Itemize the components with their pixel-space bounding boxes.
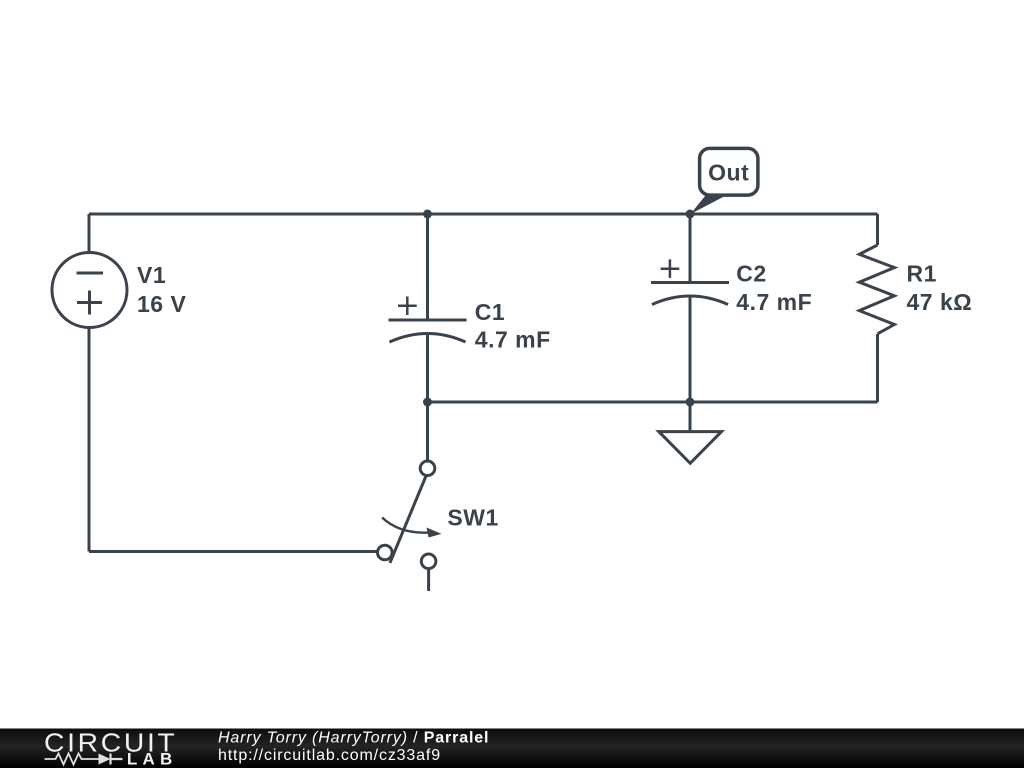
svg-text:C1: C1: [475, 299, 505, 325]
wire: top rail from V1 to R1: [89, 213, 878, 216]
node dot C (C2 bottom): [686, 398, 695, 407]
wire: C1 top lead: [426, 214, 429, 320]
footer bar: [0, 729, 1024, 768]
wire: R1 top lead: [876, 214, 879, 245]
capacitor C2: [651, 259, 729, 304]
svg-text:V1: V1: [137, 262, 166, 288]
voltage source V1: [52, 253, 127, 328]
CircuitLab logo wordmark: [44, 728, 178, 768]
switch SW1: [378, 461, 442, 591]
svg-text:4.7 mF: 4.7 mF: [475, 327, 551, 353]
svg-text:R1: R1: [907, 261, 937, 287]
capacitor C1: [389, 297, 467, 343]
svg-text:Harry Torry (HarryTorry) / Par: Harry Torry (HarryTorry) / Parralel: [218, 730, 489, 747]
wire: node to ground: [689, 402, 692, 432]
wire: R1 bottom lead: [876, 334, 879, 402]
svg-text:LAB: LAB: [127, 750, 178, 768]
footer attribution text: [218, 730, 489, 765]
svg-text:SW1: SW1: [447, 505, 498, 531]
svg-text:http://circuitlab.com/cz33af9: http://circuitlab.com/cz33af9: [218, 747, 441, 764]
wire: V1 bottom lead down left side: [88, 328, 91, 552]
wire: node to switch top terminal: [426, 402, 429, 461]
wire: V1 top lead: [88, 214, 91, 253]
resistor R1: [859, 245, 894, 334]
wire: C2 bottom lead: [689, 296, 692, 402]
svg-text:C2: C2: [736, 261, 766, 287]
wire: bottom left rail to switch: [89, 550, 378, 553]
node flag Out: [691, 148, 758, 214]
node dot B (C1 bottom): [423, 398, 432, 407]
svg-text:Out: Out: [708, 159, 749, 185]
node dot Out (C2 top): [686, 210, 695, 219]
wire: C1 bottom lead: [426, 334, 429, 403]
ground: [659, 432, 722, 464]
svg-text:16 V: 16 V: [137, 291, 186, 317]
wire: bottom middle rail: [428, 401, 878, 404]
node dot A (C1 top): [423, 210, 432, 219]
CircuitLab logo resistor-diode glyph: [45, 754, 123, 765]
wire: C2 top lead: [689, 214, 692, 283]
svg-text:4.7 mF: 4.7 mF: [736, 289, 812, 315]
svg-text:47 kΩ: 47 kΩ: [907, 289, 973, 315]
